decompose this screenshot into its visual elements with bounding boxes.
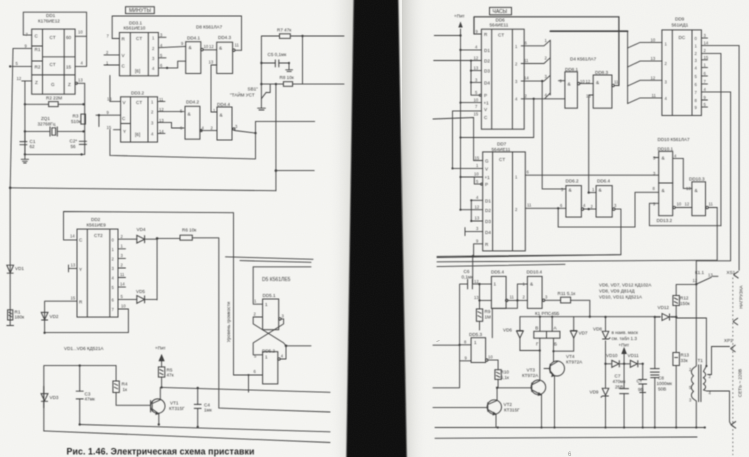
svg-text:11: 11 (709, 202, 714, 207)
svg-text:11: 11 (235, 43, 240, 48)
svg-text:VT3: VT3 (527, 368, 536, 373)
svg-text:15: 15 (704, 55, 709, 60)
svg-text:G: G (51, 82, 55, 87)
svg-text:50В: 50В (658, 387, 666, 392)
svg-text:1: 1 (474, 340, 477, 345)
svg-text:13: 13 (474, 66, 479, 71)
svg-text:DD13.2: DD13.2 (657, 218, 673, 223)
svg-text:11: 11 (527, 203, 532, 208)
svg-text:12: 12 (474, 279, 479, 284)
svg-text:13: 13 (71, 263, 76, 268)
svg-text:в наив. маск: в наив. маск (612, 330, 639, 335)
svg-text:DD5.1: DD5.1 (263, 293, 276, 298)
svg-text:11: 11 (510, 295, 515, 300)
svg-text:15: 15 (475, 156, 480, 161)
svg-text:R9: R9 (485, 309, 491, 314)
svg-text:VT2: VT2 (504, 402, 513, 407)
svg-text:CT: CT (499, 157, 505, 162)
svg-text:+Пит: +Пит (155, 346, 167, 351)
svg-text:1мк: 1мк (204, 408, 213, 413)
svg-text:CT: CT (50, 62, 56, 67)
svg-text:DD8.1: DD8.1 (565, 67, 578, 72)
svg-text:см. табл 1.3: см. табл 1.3 (612, 336, 638, 341)
svg-text:1: 1 (265, 355, 268, 360)
svg-text:CT: CT (136, 100, 142, 105)
svg-text:32768Гц: 32768Гц (38, 122, 56, 127)
svg-text:Y: Y (123, 129, 126, 134)
svg-text:13: 13 (159, 118, 164, 123)
svg-text:R13: R13 (681, 353, 690, 358)
svg-text:Y: Y (79, 267, 82, 272)
svg-text:13: 13 (586, 94, 591, 99)
svg-text:VD8, VD9 Д814Д: VD8, VD9 Д814Д (599, 289, 635, 294)
svg-text:VD5: VD5 (136, 289, 145, 294)
svg-text:10: 10 (78, 30, 83, 35)
svg-text:DD9: DD9 (675, 17, 685, 22)
svg-text:VD12: VD12 (658, 305, 670, 310)
svg-text:13: 13 (209, 60, 214, 65)
svg-text:R4: R4 (122, 382, 128, 387)
svg-text:11: 11 (614, 80, 619, 85)
svg-text:SB1": SB1" (248, 87, 259, 92)
svg-text:12: 12 (159, 107, 164, 112)
svg-text:13: 13 (686, 186, 691, 191)
svg-text:DD4.1: DD4.1 (187, 36, 200, 41)
svg-text:К1.1: К1.1 (695, 270, 705, 275)
svg-text:14: 14 (120, 282, 125, 287)
svg-text:14: 14 (704, 41, 709, 46)
svg-text:CT2: CT2 (94, 233, 103, 238)
svg-text:Уровень громкости: Уровень громкости (226, 301, 231, 342)
svg-text:VT4: VT4 (566, 354, 575, 359)
svg-text:VD9: VD9 (590, 390, 599, 395)
svg-text:D2: D2 (485, 208, 491, 213)
svg-text:470мк: 470мк (613, 379, 627, 384)
svg-text:D8 К561ЛА7: D8 К561ЛА7 (196, 25, 223, 30)
svg-text:DD2: DD2 (91, 217, 101, 222)
svg-text:10: 10 (488, 355, 493, 360)
svg-text:R6 10к: R6 10к (182, 228, 197, 233)
svg-text:Ст: Ст (637, 379, 643, 384)
svg-text:P: P (484, 93, 487, 98)
svg-text:564ИЕ11: 564ИЕ11 (490, 23, 509, 28)
svg-text:&: & (530, 282, 533, 287)
svg-text:DD8.3: DD8.3 (595, 70, 608, 75)
svg-text:&: & (569, 188, 572, 193)
svg-text:КТ972А: КТ972А (522, 373, 539, 378)
svg-text:56: 56 (71, 144, 77, 149)
svg-text:12: 12 (475, 205, 480, 210)
svg-text:47мк: 47мк (85, 397, 96, 402)
svg-text:ХР1: ХР1 (724, 338, 733, 343)
svg-text:9В: 9В (638, 387, 644, 392)
svg-text:180к: 180к (15, 315, 26, 320)
svg-text:VD1...VD6 КД521А: VD1...VD6 КД521А (64, 346, 104, 351)
svg-text:&: & (188, 112, 191, 117)
svg-text:510к: 510к (71, 119, 82, 124)
svg-text:DD10 К561ЛА7: DD10 К561ЛА7 (658, 137, 690, 142)
svg-text:DD3.2: DD3.2 (131, 91, 144, 96)
svg-text:В: В (535, 326, 538, 331)
svg-text:DD5.4: DD5.4 (491, 270, 504, 275)
svg-text:&: & (662, 188, 665, 193)
svg-text:CT: CT (50, 35, 56, 40)
svg-text:C5 0,1мк: C5 0,1мк (268, 52, 288, 57)
svg-text:&: & (596, 80, 599, 85)
svg-text:60: 60 (66, 35, 72, 40)
svg-text:VD6: VD6 (503, 328, 512, 333)
svg-text:VD3: VD3 (50, 395, 59, 400)
svg-text:VD6, VD7, VD12 КД102А: VD6, VD7, VD12 КД102А (599, 283, 652, 288)
svg-text:DD5.2: DD5.2 (262, 349, 275, 354)
svg-text:МИНУТЫ: МИНУТЫ (129, 8, 152, 14)
svg-text:13: 13 (475, 216, 480, 221)
svg-text:12: 12 (209, 44, 214, 49)
svg-text:10: 10 (651, 38, 656, 43)
svg-text:C6: C6 (464, 269, 470, 274)
svg-text:15: 15 (107, 125, 112, 130)
svg-text:150к: 150к (680, 301, 691, 306)
svg-text:DD10.4: DD10.4 (527, 270, 543, 275)
svg-text:12: 12 (693, 278, 698, 283)
svg-text:[6]: [6] (135, 69, 140, 74)
svg-text:DD4.2: DD4.2 (186, 100, 199, 105)
svg-text:VD8: VD8 (593, 327, 602, 332)
svg-text:P: P (485, 182, 488, 187)
svg-text:&: & (599, 188, 602, 193)
svg-text:12: 12 (474, 56, 479, 61)
svg-text:15: 15 (66, 65, 72, 70)
svg-text:1000мк: 1000мк (657, 381, 673, 386)
svg-text:КТ315Г: КТ315Г (504, 408, 520, 413)
svg-text:15: 15 (71, 296, 76, 301)
svg-text:Z: Z (68, 82, 71, 87)
svg-text:DC: DC (679, 35, 686, 40)
svg-text:25В: 25В (615, 384, 623, 389)
svg-text:12: 12 (651, 76, 656, 81)
svg-text:11: 11 (120, 272, 125, 277)
svg-text:D2: D2 (484, 59, 490, 64)
svg-text:1М: 1М (485, 315, 492, 320)
svg-text:&: & (695, 188, 698, 193)
svg-text:DD1: DD1 (46, 13, 56, 18)
svg-text:16: 16 (107, 97, 112, 102)
svg-text:10: 10 (677, 202, 682, 207)
svg-text:D4 К561ЛА7: D4 К561ЛА7 (570, 57, 597, 62)
svg-text:DD6.2: DD6.2 (566, 179, 579, 184)
svg-text:T1: T1 (698, 358, 704, 363)
svg-text:C7: C7 (615, 374, 621, 379)
svg-text:15: 15 (474, 112, 479, 117)
svg-text:VT1: VT1 (170, 401, 179, 406)
svg-text:DD4.4: DD4.4 (217, 102, 230, 107)
svg-text:+1: +1 (485, 175, 491, 180)
svg-text:КТ315Г: КТ315Г (169, 406, 185, 411)
svg-text:564ИЕ11: 564ИЕ11 (492, 147, 511, 152)
svg-text:DD7: DD7 (497, 142, 507, 147)
svg-text:Z: Z (35, 80, 38, 85)
svg-text:R10: R10 (501, 370, 510, 375)
svg-text:1: 1 (494, 282, 497, 287)
svg-text:"ТАЙМ УСТ: "ТАЙМ УСТ (230, 90, 255, 97)
svg-text:[6]: [6] (135, 132, 140, 137)
svg-text:D3: D3 (484, 69, 490, 74)
svg-text:VD1: VD1 (15, 266, 24, 271)
svg-text:R12: R12 (680, 296, 689, 301)
svg-text:62: 62 (30, 144, 36, 149)
svg-text:R11 5,1к: R11 5,1к (558, 291, 577, 296)
svg-text:+Пит: +Пит (454, 14, 466, 19)
svg-text:10: 10 (474, 98, 479, 103)
svg-text:12: 12 (586, 79, 591, 84)
svg-text:0,1мк: 0,1мк (462, 275, 475, 280)
svg-text:СЕТЬ ~ 220В: СЕТЬ ~ 220В (738, 369, 743, 397)
svg-text:14: 14 (70, 234, 75, 239)
svg-text:D1: D1 (485, 199, 491, 204)
svg-text:G: G (485, 159, 489, 164)
svg-text:11: 11 (159, 97, 164, 102)
svg-text:R8 10к: R8 10к (280, 75, 295, 80)
svg-text:11: 11 (524, 58, 529, 63)
svg-text:13: 13 (708, 273, 713, 278)
svg-text:13: 13 (651, 56, 656, 61)
svg-text:VD10: VD10 (606, 353, 618, 358)
svg-text:+Пит: +Пит (619, 343, 631, 348)
svg-text:12: 12 (685, 202, 690, 207)
svg-text:CT: CT (136, 36, 142, 41)
svg-text:VD10, VD11 КД521А: VD10, VD11 КД521А (599, 295, 643, 300)
svg-text:CT: CT (498, 33, 504, 38)
svg-text:КТ972А: КТ972А (566, 360, 583, 365)
svg-text:D5 К561ЛЕ5: D5 К561ЛЕ5 (262, 277, 291, 283)
svg-text:R7 47к: R7 47к (277, 28, 292, 33)
svg-text:561ИД1: 561ИД1 (672, 23, 689, 28)
svg-text:К561ИЕ10: К561ИЕ10 (124, 26, 146, 31)
svg-text:14: 14 (524, 76, 529, 81)
svg-text:К176ИЕ12: К176ИЕ12 (38, 19, 60, 24)
svg-text:НАГРУЗКА: НАГРУЗКА (739, 284, 744, 308)
svg-text:R3: R3 (73, 114, 79, 119)
svg-text:11: 11 (652, 93, 657, 98)
svg-text:DD4.3: DD4.3 (218, 35, 231, 40)
svg-text:&: & (220, 113, 223, 118)
svg-text:XS1: XS1 (727, 270, 736, 275)
svg-text:&: & (662, 156, 665, 161)
svg-text:R2: R2 (35, 65, 41, 70)
svg-text:13: 13 (78, 78, 83, 83)
svg-text:12: 12 (17, 76, 22, 81)
svg-text:DD10.3: DD10.3 (689, 177, 705, 182)
svg-text:D3: D3 (485, 219, 491, 224)
svg-text:VD4: VD4 (137, 227, 146, 232)
svg-text:DD6.4: DD6.4 (597, 179, 610, 184)
svg-text:14: 14 (159, 129, 164, 134)
svg-text:ZQ1: ZQ1 (41, 116, 50, 121)
svg-text:ЧАСЫ: ЧАСЫ (493, 9, 508, 15)
svg-text:R2 22М: R2 22М (46, 96, 62, 101)
svg-text:DD5.3: DD5.3 (469, 332, 482, 337)
svg-text:10: 10 (121, 304, 126, 309)
svg-text:R1: R1 (35, 47, 41, 52)
svg-text:&: & (189, 45, 192, 50)
svg-text:DD10.1: DD10.1 (658, 147, 674, 152)
svg-text:Б: Б (554, 342, 557, 347)
svg-text:C2*: C2* (70, 139, 78, 144)
svg-text:VD11: VD11 (628, 353, 640, 358)
svg-text:47к: 47к (167, 373, 175, 378)
svg-text:10: 10 (474, 172, 479, 177)
svg-text:VD2: VD2 (50, 314, 59, 319)
svg-text:Рис. 1.46. Электрическая схема: Рис. 1.46. Электрическая схема приставки (67, 447, 255, 457)
svg-text:&: & (219, 46, 222, 51)
svg-text:5,1к: 5,1к (501, 375, 510, 380)
svg-text:D4: D4 (485, 230, 491, 235)
svg-text:К1 РПС45Б: К1 РПС45Б (535, 311, 559, 316)
svg-text:&: & (568, 82, 571, 87)
svg-text:13: 13 (474, 295, 479, 300)
svg-text:К561ИЕ9: К561ИЕ9 (87, 223, 107, 228)
svg-text:1: 1 (265, 302, 268, 307)
svg-text:D4: D4 (484, 81, 490, 86)
svg-text:VD7: VD7 (579, 331, 588, 336)
svg-text:+1: +1 (484, 101, 490, 106)
svg-text:33к: 33к (681, 358, 689, 363)
svg-text:С8: С8 (658, 376, 664, 381)
svg-text:D1: D1 (484, 48, 490, 53)
